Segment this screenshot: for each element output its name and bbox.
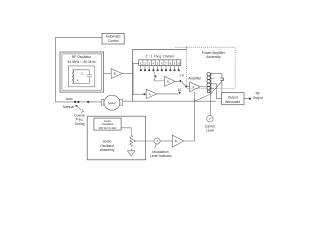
- trimmer capacitor: [220, 73, 224, 92]
- svg-text:Assembly: Assembly: [100, 148, 115, 152]
- svg-text:RF: RF: [256, 92, 260, 96]
- box RF Oscillator (double border): [60, 52, 104, 92]
- inductor L: [73, 70, 74, 84]
- wire transformer bottom to carrier meter: [209, 93, 211, 116]
- op-amp A1 (divide by 10 path): [146, 89, 157, 98]
- wire osc to buffer: [104, 72, 112, 74]
- selector arm: [154, 75, 156, 77]
- mechanical tuning linkage diagonal: [195, 79, 224, 101]
- svg-text:1-9: 1-9: [179, 74, 184, 78]
- svg-text:Motor: Motor: [108, 101, 115, 105]
- wire common to amplifier A: [186, 86, 189, 88]
- pot wiper arrow: [134, 140, 137, 142]
- wire B out: [175, 80, 180, 82]
- svg-text:Amplifier: Amplifier: [188, 77, 202, 81]
- svg-text:Level: Level: [206, 128, 214, 132]
- wire: manual tuning arm: [77, 107, 81, 111]
- svg-text:B₁: B₁: [114, 72, 117, 76]
- node A1 input: [143, 93, 145, 95]
- svg-text:Attenuator: Attenuator: [225, 100, 241, 104]
- op-amp B divider path: [165, 76, 176, 86]
- svg-text:B₁: B₁: [167, 80, 170, 84]
- transformer taps: [211, 78, 214, 88]
- svg-text:34 MHz – 80 MHz: 34 MHz – 80 MHz: [67, 60, 96, 64]
- node RF output: [249, 98, 251, 100]
- svg-text:Tuning: Tuning: [74, 122, 84, 126]
- svg-text:B₂: B₂: [175, 139, 178, 143]
- wire mod amp to power amplifier: [184, 92, 195, 141]
- node auto contact: [74, 101, 76, 103]
- node 1-9 contact: [179, 80, 181, 82]
- svg-text:RF Oscillator: RF Oscillator: [72, 55, 92, 59]
- wire buffer out: [122, 73, 133, 75]
- op-amp B2 modulation: [172, 135, 184, 147]
- wire osc to pot: [121, 128, 131, 136]
- pot to ground: [130, 148, 132, 151]
- tank circuit shield box: [68, 66, 95, 87]
- meter modulation level: [154, 138, 160, 144]
- wire down to A1: [133, 74, 146, 95]
- box output attenuator: [222, 93, 244, 105]
- motor M1: [101, 99, 104, 105]
- box divider stages: [139, 60, 181, 66]
- motor drive shaft: [123, 100, 217, 102]
- wire top tap to trimmer: [211, 72, 222, 74]
- wire: automatic control feedback top: [55, 36, 102, 38]
- box U1 Automatic Control: [102, 33, 124, 44]
- potentiometer R1: [130, 135, 133, 146]
- node junction: [87, 101, 89, 103]
- ground: [127, 151, 135, 156]
- svg-text:Manual: Manual: [63, 105, 74, 109]
- node manual contact: [75, 105, 77, 107]
- wire pot to modulation meter: [137, 140, 154, 142]
- svg-text:Control: Control: [108, 39, 119, 43]
- op-amp A power amplifier: [190, 82, 201, 92]
- wire to divider input: [133, 63, 139, 73]
- svg-text:400 Hz /1 kHz: 400 Hz /1 kHz: [98, 126, 117, 130]
- wire RF output: [244, 98, 249, 100]
- svg-text:Level Indicator: Level Indicator: [150, 154, 173, 158]
- big divider section box: [132, 50, 187, 102]
- svg-text:Auto: Auto: [66, 97, 73, 101]
- svg-text:Assembly: Assembly: [206, 55, 221, 59]
- svg-text:A₁: A₁: [149, 92, 152, 96]
- svg-text:2 : 1 Freq. Divider: 2 : 1 Freq. Divider: [146, 55, 176, 59]
- capacitor C: [87, 70, 92, 84]
- svg-text:A: A: [193, 85, 195, 89]
- box audio oscillator: [94, 118, 121, 130]
- transformer T1: [210, 73, 212, 93]
- node common: [185, 86, 187, 88]
- divider output contacts: [141, 66, 179, 70]
- wire: left vertical feedback: [54, 37, 56, 102]
- svg-text:C: C: [81, 72, 83, 76]
- manual knob arrow: [81, 109, 83, 112]
- wire meter to mod amp: [160, 140, 172, 142]
- wire: switch line to motor: [55, 101, 101, 103]
- wire A out: [200, 86, 206, 88]
- svg-text:Output: Output: [228, 96, 238, 100]
- wire tap to output attenuator: [211, 84, 222, 99]
- box audio oscillator assembly: [87, 116, 145, 160]
- meter carrier level: [207, 116, 213, 122]
- op-amp buffer B1: [111, 69, 122, 79]
- wire A1 out to contact 10: [157, 93, 179, 95]
- dashed box Power Amplifier Assembly: [187, 47, 236, 88]
- svg-text:10: 10: [178, 88, 182, 92]
- svg-text:Output: Output: [253, 96, 263, 100]
- switch arm to amplifier: [181, 81, 186, 86]
